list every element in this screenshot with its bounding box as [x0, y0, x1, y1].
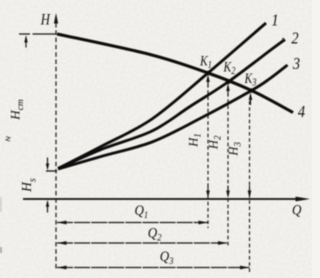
H3 dimension dashed line	[249, 101, 251, 272]
H1 upper arrow	[206, 75, 210, 83]
H1 lower arrow	[206, 191, 210, 199]
x axis arrowhead	[296, 197, 311, 202]
system curve 3	[58, 65, 288, 169]
node K1 dot	[206, 71, 211, 76]
Q1 left arrow	[58, 221, 67, 225]
H2 upper arrow	[226, 84, 230, 92]
stray scan mark	[6, 137, 10, 142]
svg-text:3: 3	[292, 55, 300, 73]
svg-text:Q: Q	[292, 202, 301, 218]
Hs level tick	[46, 170, 57, 172]
H2 dimension dashed line	[227, 93, 229, 248]
Q1 right arrow	[199, 221, 208, 225]
H1 dimension dashed line	[207, 84, 209, 228]
svg-text:2: 2	[291, 29, 298, 47]
H3 lower arrow	[248, 191, 252, 199]
Q2 right arrow	[218, 241, 227, 245]
system curve 2	[58, 40, 285, 169]
Hs dimension upper arrow	[46, 158, 49, 171]
y axis arrowhead	[54, 13, 58, 24]
Q3 right arrow	[240, 266, 249, 270]
Q2 dimension line	[57, 242, 228, 244]
node K2 dot	[226, 80, 231, 85]
Q1 dimension line	[57, 222, 208, 224]
H3 upper arrow	[249, 93, 253, 101]
Hct dimension top arrow	[24, 35, 27, 43]
Q2 left arrow	[58, 241, 67, 245]
x axis Q	[23, 198, 303, 200]
svg-text:Н: Н	[40, 11, 51, 28]
Q3 left arrow	[58, 266, 67, 270]
Hs dimension lower arrow	[46, 200, 49, 213]
Q3 dimension line	[57, 267, 250, 269]
system curve 1	[58, 23, 266, 169]
scan smudge left edge lower	[0, 247, 2, 253]
H max level dashed line	[19, 33, 57, 35]
svg-text:4: 4	[298, 103, 305, 121]
pump curve 4	[57, 34, 293, 113]
H2 lower arrow	[226, 191, 230, 199]
node K3 dot	[250, 88, 255, 93]
Hct faint dimension line	[25, 52, 27, 190]
y axis (dashed)	[55, 23, 57, 271]
scan smudge left edge mid	[0, 197, 2, 212]
svg-text:1: 1	[271, 11, 278, 29]
scan speck	[282, 38, 284, 40]
